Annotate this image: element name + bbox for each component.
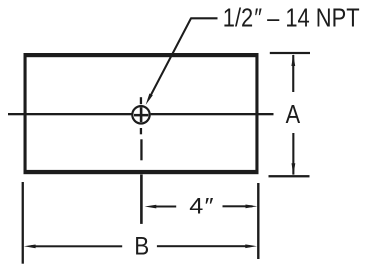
hole center mark plus horizontal: [134, 114, 148, 117]
dimension A line upper segment: [292, 55, 294, 92]
vertical centerline tick above hole: [140, 97, 142, 104]
dimension B line left segment: [31, 245, 122, 247]
dimension B line right segment: [157, 245, 250, 247]
dimension A up arrowhead: [291, 54, 295, 66]
horizontal centerline left segment: [8, 113, 132, 115]
vertical centerline tick below hole: [140, 128, 142, 134]
dimension 4in right arrowhead: [246, 205, 258, 209]
extension line below hole center: [140, 175, 143, 224]
dimension B right arrowhead: [245, 244, 257, 248]
plate outline left edge: [24, 53, 27, 174]
dimension B left arrowhead: [24, 245, 36, 249]
plate outline right edge: [255, 53, 258, 174]
dimension A line lower segment: [292, 133, 294, 175]
dimension A top extension line: [270, 52, 310, 54]
svg-text:1/2″ – 14 NPT: 1/2″ – 14 NPT: [223, 5, 360, 33]
plate outline top edge: [24, 53, 259, 57]
extension line below left edge: [22, 182, 24, 264]
horizontal centerline right segment: [151, 113, 274, 115]
dimension 4in left arrowhead: [145, 205, 157, 209]
hole circle (1/2-14 NPT port): [132, 106, 149, 123]
svg-text:A: A: [286, 101, 301, 129]
dimension 4in line right segment: [223, 205, 253, 207]
vertical centerline dash below hole: [140, 139, 142, 160]
svg-text:4″: 4″: [189, 193, 213, 218]
leader arrowhead at hole: [146, 94, 153, 105]
svg-text:B: B: [134, 233, 149, 261]
hole center mark plus vertical: [140, 107, 143, 122]
dimension 4in line left segment: [152, 206, 176, 208]
dimension A down arrowhead: [292, 163, 296, 175]
leader line to hole: [149, 18, 218, 99]
plate outline bottom edge: [24, 170, 259, 174]
extension line below right edge: [257, 183, 259, 259]
dimension A bottom extension line: [269, 175, 310, 177]
